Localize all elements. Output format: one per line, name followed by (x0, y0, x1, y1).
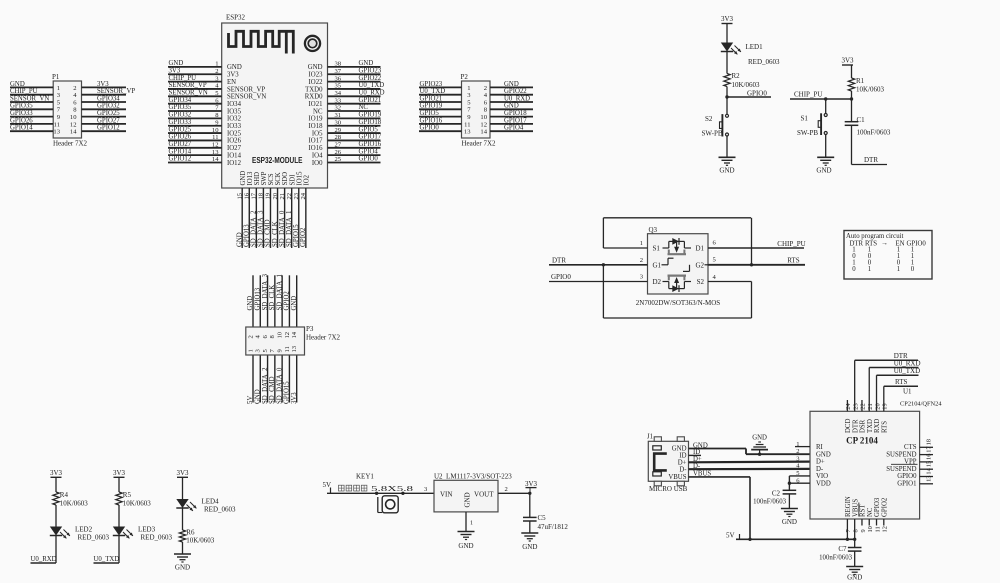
svg-text:VBUS: VBUS (668, 474, 686, 481)
svg-text:GND: GND (816, 451, 831, 458)
svg-text:IO13: IO13 (247, 171, 254, 186)
svg-text:32: 32 (335, 105, 342, 112)
svg-text:20: 20 (874, 403, 881, 409)
svg-text:3V3: 3V3 (113, 469, 126, 477)
svg-text:47uF/1812: 47uF/1812 (538, 523, 569, 531)
svg-text:1: 1 (467, 85, 470, 92)
svg-text:GND: GND (359, 60, 374, 67)
svg-text:GPIO3: GPIO3 (874, 497, 881, 517)
svg-text:13: 13 (212, 149, 219, 156)
svg-text:GND: GND (782, 518, 797, 526)
svg-text:GPIO18: GPIO18 (504, 110, 527, 117)
svg-text:10K/0603: 10K/0603 (732, 81, 761, 89)
svg-text:GPIO33: GPIO33 (169, 119, 192, 126)
svg-text:5.8X5.8: 5.8X5.8 (371, 485, 414, 493)
svg-text:GND: GND (816, 167, 831, 175)
svg-text:GND: GND (458, 542, 473, 550)
svg-text:26: 26 (335, 149, 342, 156)
svg-text:RED_0603: RED_0603 (141, 534, 173, 542)
svg-text:GND: GND (464, 492, 472, 507)
svg-text:CP2104/QFN24: CP2104/QFN24 (900, 401, 942, 408)
svg-text:10K/0603: 10K/0603 (123, 500, 152, 508)
svg-text:NC: NC (867, 507, 874, 517)
svg-text:C2: C2 (772, 490, 781, 498)
svg-text:1: 1 (897, 266, 900, 273)
svg-text:GPIO18: GPIO18 (359, 119, 382, 126)
svg-text:GPIO12: GPIO12 (169, 156, 192, 163)
svg-text:IO2: IO2 (303, 174, 310, 185)
svg-text:SD_DATA_1: SD_DATA_1 (286, 211, 293, 247)
svg-text:13: 13 (926, 476, 933, 482)
svg-text:23: 23 (852, 403, 859, 409)
svg-text:SD_CLK: SD_CLK (269, 285, 276, 311)
svg-text:GPIO22: GPIO22 (359, 75, 382, 82)
svg-text:GPIO17: GPIO17 (359, 134, 382, 141)
svg-text:LED1: LED1 (746, 43, 764, 51)
svg-text:GPIO21: GPIO21 (359, 97, 382, 104)
svg-text:IO22: IO22 (309, 79, 324, 86)
svg-text:RED_0603: RED_0603 (748, 58, 780, 66)
svg-text:0: 0 (911, 266, 915, 273)
svg-text:30: 30 (335, 119, 342, 126)
svg-text:IO32: IO32 (227, 116, 242, 123)
svg-text:GND: GND (847, 574, 862, 582)
svg-text:IO27: IO27 (227, 145, 242, 152)
svg-text:GPIO0: GPIO0 (551, 273, 571, 281)
svg-text:3V3: 3V3 (97, 81, 109, 88)
svg-text:GPIO16: GPIO16 (359, 141, 382, 148)
svg-text:SD_CMD: SD_CMD (265, 219, 272, 247)
svg-text:2: 2 (215, 68, 218, 75)
svg-text:Header 7X2: Header 7X2 (462, 140, 497, 148)
svg-text:SCK: SCK (275, 172, 282, 185)
svg-text:TXD0: TXD0 (305, 86, 323, 93)
svg-text:SW-PB: SW-PB (702, 130, 723, 138)
svg-text:GPIO35: GPIO35 (10, 103, 33, 110)
svg-text:R1: R1 (856, 77, 865, 85)
svg-text:CP 2104: CP 2104 (846, 436, 878, 446)
svg-text:ESP32-MODULE: ESP32-MODULE (252, 156, 303, 165)
svg-text:SWP: SWP (261, 171, 268, 185)
svg-text:10: 10 (212, 127, 219, 134)
svg-text:KEY1: KEY1 (356, 473, 374, 481)
svg-text:SDI: SDI (289, 174, 296, 186)
svg-text:CHIP_PU: CHIP_PU (777, 240, 805, 248)
svg-text:11: 11 (874, 526, 881, 532)
svg-text:17: 17 (251, 192, 258, 199)
svg-text:1: 1 (868, 266, 871, 273)
svg-text:Q3: Q3 (649, 226, 658, 234)
svg-text:38: 38 (335, 61, 342, 68)
svg-text:29: 29 (335, 127, 342, 134)
svg-text:10K/0603: 10K/0603 (186, 537, 215, 545)
svg-text:SD_DATA_3: SD_DATA_3 (258, 210, 265, 247)
svg-text:S1: S1 (653, 245, 661, 253)
svg-text:LED2: LED2 (75, 526, 93, 534)
svg-text:100nF/0603: 100nF/0603 (857, 129, 891, 137)
svg-text:5V: 5V (323, 481, 332, 489)
svg-text:GPIO17: GPIO17 (504, 117, 527, 124)
svg-text:NC: NC (313, 108, 323, 115)
svg-text:SENSOR_VN: SENSOR_VN (169, 90, 208, 97)
svg-text:DTR: DTR (552, 256, 566, 264)
svg-text:RED_0603: RED_0603 (204, 506, 236, 514)
svg-text:21: 21 (279, 193, 286, 200)
svg-text:GND: GND (175, 564, 190, 572)
svg-text:14: 14 (70, 129, 77, 136)
svg-text:U2 LM1117-3V3/SOT-223: U2 LM1117-3V3/SOT-223 (434, 473, 512, 481)
svg-text:18: 18 (258, 192, 265, 199)
svg-text:1: 1 (640, 240, 643, 247)
svg-text:2: 2 (505, 486, 508, 493)
svg-text:GND: GND (522, 543, 537, 551)
svg-text:DSR: DSR (860, 419, 867, 433)
svg-text:3V3: 3V3 (291, 392, 298, 404)
svg-text:IO5: IO5 (312, 130, 323, 137)
svg-text:IO23: IO23 (309, 72, 324, 79)
svg-text:12: 12 (284, 332, 291, 339)
svg-text:DTR: DTR (864, 156, 878, 164)
svg-text:SD_DATA_0: SD_DATA_0 (276, 367, 283, 404)
svg-text:GPIO5: GPIO5 (359, 126, 379, 133)
svg-text:GPIO27: GPIO27 (97, 117, 120, 124)
svg-text:3V3: 3V3 (50, 469, 63, 477)
svg-text:22: 22 (286, 193, 293, 200)
svg-text:10: 10 (480, 114, 487, 121)
svg-text:S2: S2 (697, 278, 705, 286)
svg-text:3V3: 3V3 (721, 15, 734, 23)
svg-text:IO21: IO21 (309, 101, 323, 108)
svg-text:Auto program circuit: Auto program circuit (846, 233, 903, 240)
svg-text:GPIO23: GPIO23 (359, 67, 382, 74)
svg-text:16: 16 (926, 454, 933, 460)
svg-text:GPIO26: GPIO26 (10, 117, 33, 124)
svg-text:Header 7X2: Header 7X2 (53, 140, 88, 148)
svg-text:VOUT: VOUT (474, 491, 494, 499)
svg-text:22: 22 (860, 403, 867, 409)
svg-text:IO19: IO19 (309, 116, 324, 123)
svg-text:2: 2 (640, 257, 643, 264)
svg-text:GND: GND (247, 296, 254, 311)
svg-text:100nF/0603: 100nF/0603 (819, 555, 852, 562)
svg-text:100nF/0603: 100nF/0603 (753, 499, 786, 506)
svg-text:U0_TXD: U0_TXD (359, 82, 385, 89)
svg-text:C7: C7 (838, 545, 847, 553)
svg-text:10K/0603: 10K/0603 (856, 86, 885, 94)
svg-text:P1: P1 (52, 73, 60, 81)
svg-text:VBUS: VBUS (852, 499, 859, 517)
svg-text:14: 14 (480, 129, 487, 136)
svg-text:17: 17 (926, 446, 933, 453)
svg-text:U0_RXD: U0_RXD (31, 556, 57, 563)
svg-text:SD_CLK: SD_CLK (272, 221, 279, 247)
svg-text:SENSOR_VP: SENSOR_VP (227, 86, 265, 93)
svg-text:R2: R2 (732, 72, 741, 80)
svg-text:U0_TXD: U0_TXD (894, 367, 920, 375)
svg-text:1: 1 (57, 85, 60, 92)
svg-text:GPIO0: GPIO0 (420, 125, 440, 132)
svg-text:EN: EN (227, 79, 236, 86)
svg-text:GPIO16: GPIO16 (420, 117, 443, 124)
svg-text:GPIO25: GPIO25 (169, 126, 192, 133)
svg-text:IO18: IO18 (309, 123, 324, 130)
svg-text:33: 33 (335, 97, 342, 104)
svg-text:13: 13 (464, 129, 471, 136)
svg-text:2N7002DW/SOT363/N-MOS: 2N7002DW/SOT363/N-MOS (636, 299, 720, 307)
svg-text:24: 24 (845, 403, 852, 410)
svg-text:RTS: RTS (787, 257, 800, 265)
svg-text:1: 1 (215, 61, 218, 68)
svg-text:D2: D2 (653, 278, 662, 286)
svg-text:11: 11 (284, 346, 291, 352)
svg-text:GPIO22: GPIO22 (504, 88, 527, 95)
svg-text:CTS: CTS (904, 444, 917, 451)
svg-text:U0_RXD: U0_RXD (359, 90, 385, 97)
svg-text:RTS: RTS (895, 378, 908, 386)
svg-text:19: 19 (882, 403, 889, 409)
svg-text:GND: GND (10, 81, 25, 88)
svg-text:R5: R5 (123, 491, 132, 499)
svg-text:GPIO21: GPIO21 (420, 95, 443, 102)
svg-text:D+: D+ (816, 459, 825, 466)
svg-text:GND: GND (291, 296, 298, 311)
svg-text:SCS: SCS (268, 173, 275, 185)
svg-text:1: 1 (247, 349, 254, 352)
svg-text:GPIO23: GPIO23 (420, 81, 443, 88)
svg-text:IO0: IO0 (312, 160, 323, 167)
svg-text:GPIO15: GPIO15 (284, 381, 291, 404)
svg-text:SENSOR_VN: SENSOR_VN (10, 95, 49, 102)
svg-text:C1: C1 (857, 116, 866, 124)
svg-text:2: 2 (73, 85, 76, 92)
svg-text:11: 11 (212, 134, 218, 141)
svg-text:IO16: IO16 (309, 145, 324, 152)
svg-text:3V3: 3V3 (227, 72, 239, 79)
svg-text:13: 13 (291, 345, 298, 352)
svg-text:P2: P2 (461, 73, 469, 81)
svg-text:SENSOR_VP: SENSOR_VP (97, 88, 135, 95)
svg-text:11: 11 (464, 121, 470, 128)
svg-text:ESP32: ESP32 (226, 14, 246, 22)
svg-text:CHIP_PU: CHIP_PU (10, 88, 38, 95)
svg-text:14: 14 (212, 156, 219, 163)
svg-text:DCD: DCD (845, 419, 852, 433)
svg-text:GPIO1: GPIO1 (897, 481, 916, 488)
svg-text:19: 19 (265, 192, 272, 199)
svg-text:GPIO0: GPIO0 (747, 90, 767, 98)
svg-text:10: 10 (277, 331, 284, 338)
svg-text:13: 13 (53, 129, 60, 136)
svg-text:GPIO0: GPIO0 (897, 473, 917, 480)
svg-text:31: 31 (335, 112, 342, 119)
svg-text:14: 14 (926, 467, 933, 474)
svg-text:GND: GND (308, 64, 323, 71)
svg-text:REGIN: REGIN (845, 496, 852, 517)
svg-text:2: 2 (247, 335, 254, 338)
svg-text:10K/0603: 10K/0603 (60, 500, 89, 508)
svg-text:GPIO19: GPIO19 (359, 112, 382, 119)
svg-text:SHD: SHD (254, 172, 261, 186)
svg-text:U0_TXD: U0_TXD (94, 556, 120, 563)
svg-text:IO14: IO14 (227, 152, 242, 159)
svg-text:GND: GND (504, 103, 519, 110)
svg-text:GND: GND (236, 232, 243, 247)
svg-text:SUSPEND: SUSPEND (886, 466, 916, 473)
svg-text:SD_DATA_3: SD_DATA_3 (262, 273, 269, 310)
svg-text:IO33: IO33 (227, 123, 242, 130)
svg-text:SUSPEND: SUSPEND (886, 451, 916, 458)
svg-text:G1: G1 (653, 261, 662, 269)
svg-text:35: 35 (335, 83, 342, 90)
svg-text:3V3: 3V3 (169, 67, 181, 74)
svg-text:GPIO13: GPIO13 (254, 287, 261, 310)
svg-text:28: 28 (335, 134, 342, 141)
svg-text:15: 15 (236, 192, 243, 199)
svg-text:VDD: VDD (816, 481, 831, 488)
svg-text:2: 2 (484, 85, 487, 92)
svg-text:SD_DATA_2: SD_DATA_2 (251, 210, 258, 247)
svg-text:RED_0603: RED_0603 (78, 534, 110, 542)
svg-text:U1: U1 (903, 388, 912, 396)
svg-text:GPIO34: GPIO34 (169, 97, 192, 104)
svg-text:15: 15 (926, 461, 933, 467)
svg-text:10: 10 (70, 114, 77, 121)
svg-text:37: 37 (335, 68, 342, 75)
svg-text:GPIO14: GPIO14 (10, 125, 33, 132)
svg-text:24: 24 (300, 192, 307, 199)
svg-text:CHIP_PU: CHIP_PU (169, 75, 197, 82)
svg-text:IO4: IO4 (312, 152, 323, 159)
svg-text:TXD: TXD (867, 419, 874, 433)
svg-text:RI: RI (816, 444, 824, 451)
svg-text:R6: R6 (186, 529, 195, 537)
svg-text:D1: D1 (695, 245, 704, 253)
svg-text:GPIO19: GPIO19 (420, 103, 443, 110)
svg-text:RXD0: RXD0 (305, 94, 323, 101)
svg-text:GND: GND (752, 435, 767, 442)
svg-text:GPIO35: GPIO35 (169, 104, 192, 111)
svg-text:27: 27 (335, 141, 342, 148)
svg-text:2: 2 (796, 448, 799, 455)
svg-text:GPIO32: GPIO32 (97, 103, 120, 110)
svg-text:LED3: LED3 (138, 526, 156, 534)
svg-text:GPIO32: GPIO32 (169, 112, 192, 119)
svg-text:1: 1 (470, 520, 473, 527)
svg-text:GPIO33: GPIO33 (10, 110, 33, 117)
svg-text:GPIO14: GPIO14 (169, 148, 192, 155)
svg-text:21: 21 (867, 403, 874, 409)
svg-text:SD_CMD: SD_CMD (269, 376, 276, 404)
svg-text:GPIO2: GPIO2 (881, 497, 888, 517)
svg-text:11: 11 (54, 121, 60, 128)
svg-text:GPIO34: GPIO34 (97, 95, 120, 102)
svg-text:GND: GND (240, 171, 247, 186)
svg-text:23: 23 (293, 192, 300, 199)
svg-text:GPIO15: GPIO15 (293, 224, 300, 247)
svg-text:10: 10 (867, 526, 874, 532)
svg-text:RXD: RXD (874, 419, 881, 433)
svg-text:J1: J1 (647, 434, 653, 441)
svg-text:12: 12 (70, 121, 77, 128)
svg-text:12: 12 (882, 526, 889, 532)
svg-text:DTR: DTR (852, 419, 859, 433)
svg-text:GPIO0: GPIO0 (907, 240, 927, 247)
svg-text:14: 14 (291, 331, 298, 338)
svg-text:GPIO12: GPIO12 (97, 125, 120, 132)
svg-text:3V3: 3V3 (176, 469, 189, 477)
svg-text:GND: GND (504, 81, 519, 88)
svg-text:IO26: IO26 (227, 138, 242, 145)
svg-text:9: 9 (860, 529, 867, 532)
svg-text:S1: S1 (801, 115, 809, 123)
svg-text:SD_DATA_2: SD_DATA_2 (262, 367, 269, 404)
svg-text:20: 20 (272, 192, 279, 199)
svg-text:IO12: IO12 (227, 160, 242, 167)
svg-text:C5: C5 (538, 514, 547, 522)
svg-text:VIO: VIO (816, 473, 828, 480)
svg-text:Header 7X2: Header 7X2 (306, 334, 341, 342)
svg-text:CHIP_PU: CHIP_PU (794, 91, 822, 99)
svg-text:GPIO0: GPIO0 (359, 156, 379, 163)
svg-text:GND: GND (254, 389, 261, 404)
svg-text:SW-PB: SW-PB (797, 129, 818, 137)
svg-text:SENSOR_VN: SENSOR_VN (227, 94, 266, 101)
svg-text:GPIO27: GPIO27 (169, 141, 192, 148)
svg-text:LED4: LED4 (202, 498, 220, 506)
svg-text:IO17: IO17 (309, 138, 324, 145)
svg-text:34: 34 (335, 90, 342, 97)
svg-text:SDO: SDO (282, 172, 289, 186)
svg-text:GPIO4: GPIO4 (504, 125, 524, 132)
svg-text:0: 0 (852, 266, 856, 273)
svg-text:SENSOR_VP: SENSOR_VP (169, 82, 207, 89)
svg-text:IO35: IO35 (227, 108, 242, 115)
svg-text:U0_TXD: U0_TXD (420, 88, 446, 95)
svg-text:GPIO2: GPIO2 (300, 227, 307, 247)
svg-text:3V3: 3V3 (841, 57, 854, 65)
svg-text:18: 18 (926, 439, 933, 445)
svg-text:IO15: IO15 (296, 171, 303, 186)
svg-text:GPIO25: GPIO25 (97, 110, 120, 117)
svg-text:IO25: IO25 (227, 130, 242, 137)
svg-text:→: → (881, 239, 888, 247)
svg-text:IO34: IO34 (227, 101, 242, 108)
svg-text:D-: D- (816, 466, 824, 473)
svg-text:GPIO5: GPIO5 (420, 110, 440, 117)
svg-text:GPIO2: GPIO2 (284, 291, 291, 311)
svg-text:G2: G2 (695, 261, 704, 269)
svg-text:P3: P3 (306, 325, 314, 333)
svg-text:VIN: VIN (440, 491, 452, 499)
svg-text:D-: D- (679, 466, 687, 473)
svg-text:GPIO26: GPIO26 (169, 134, 192, 141)
svg-text:5V: 5V (726, 532, 735, 540)
svg-text:RST: RST (860, 504, 867, 517)
svg-text:S2: S2 (705, 115, 713, 123)
svg-text:16: 16 (243, 192, 250, 199)
svg-text:8: 8 (852, 529, 859, 532)
svg-text:SD_DATA_1: SD_DATA_1 (276, 274, 283, 310)
svg-text:12: 12 (480, 121, 487, 128)
svg-text:RTS: RTS (881, 421, 888, 433)
svg-text:GND: GND (719, 167, 734, 175)
svg-text:SD_DATA_0: SD_DATA_0 (279, 210, 286, 247)
svg-text:R4: R4 (60, 491, 69, 499)
svg-text:5V: 5V (247, 396, 254, 404)
svg-text:GND: GND (227, 64, 242, 71)
svg-text:3V3: 3V3 (525, 480, 538, 488)
svg-text:NC: NC (359, 104, 369, 111)
